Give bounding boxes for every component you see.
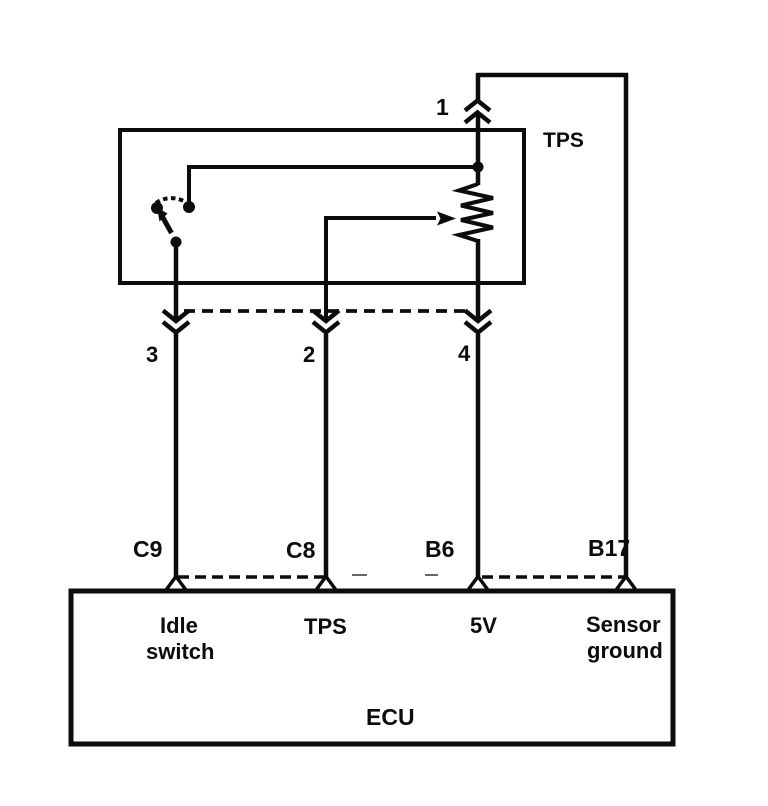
svg-text:2: 2 [303, 342, 315, 367]
TPS sensor box [120, 130, 524, 283]
wire: junction to resistor top [476, 165, 481, 185]
dashed connector line (lower right segment) [482, 575, 627, 579]
ECU box [71, 591, 673, 744]
wire: right vertical sensor-ground return to B17 [624, 73, 629, 577]
connector chevrons pin 2 (double, pointing down) [313, 311, 339, 333]
resistor: potentiometer element [459, 184, 493, 241]
ECU pin name: Idle switch [146, 613, 214, 664]
connector chevrons pin 1 (double, pointing up) [465, 101, 490, 123]
svg-text:5V: 5V [470, 613, 497, 638]
svg-text:Sensor: Sensor [586, 612, 661, 637]
svg-text:3: 3 [146, 342, 158, 367]
wiper arm wire (pin 2 up and right) [326, 218, 436, 321]
wire: top horizontal from pin 1 to sensor-ground return [477, 73, 628, 78]
wiper arrowhead [437, 212, 456, 226]
svg-text:ground: ground [587, 638, 663, 663]
svg-text:TPS: TPS [304, 614, 347, 639]
ECU connector entry C8 (V mark) [316, 577, 336, 591]
svg-text:C9: C9 [133, 536, 162, 562]
switch: arm arrowhead [157, 208, 168, 222]
svg-text:B6: B6 [425, 536, 454, 562]
connector chevrons pin 3 (double, pointing down) [163, 311, 189, 333]
wire: pin 3 down to ECU C9 [174, 334, 179, 578]
wire: pin 2 down to ECU C8 [324, 334, 329, 578]
svg-text:Idle: Idle [160, 613, 198, 638]
switch: pivot dot [171, 237, 182, 248]
dashed connector line (lower faint middle dashes) [352, 574, 438, 576]
svg-text:1: 1 [436, 94, 449, 120]
ECU connector entry B6 (V mark) [468, 577, 488, 591]
wire: pin 1 stub above connector [476, 73, 481, 101]
wire: switch contact up and across to junction [189, 167, 478, 206]
wire: pin1 down into box to junction [476, 114, 481, 167]
switch: movable arm shaft [162, 216, 172, 233]
svg-text:4: 4 [458, 341, 471, 366]
wire: resistor bottom down to connector chevron (pin 4) [476, 239, 481, 321]
ECU connector entry B17 (V mark) [616, 577, 636, 591]
switch: dashed travel arc [156, 198, 185, 203]
svg-text:TPS: TPS [543, 129, 584, 152]
dashed connector line (upper) [184, 309, 468, 313]
connector chevrons pin 4 (double, pointing down) [465, 311, 491, 333]
ECU pin name: Sensor ground [586, 612, 663, 663]
dashed connector line (lower left segment) [178, 575, 324, 579]
ECU connector entry C9 (V mark) [166, 577, 186, 591]
svg-text:C8: C8 [286, 537, 316, 563]
wire: idle switch down to connector chevron (pin 3) [174, 242, 179, 321]
svg-text:ECU: ECU [366, 704, 415, 730]
node: junction dot at resistor top [473, 162, 484, 173]
switch: thrown-arm tip dot [151, 202, 163, 214]
switch: fixed contact dot [183, 201, 195, 213]
svg-text:switch: switch [146, 639, 214, 664]
wire: pin 4 down to ECU B6 [476, 334, 481, 578]
svg-text:B17: B17 [588, 535, 630, 561]
